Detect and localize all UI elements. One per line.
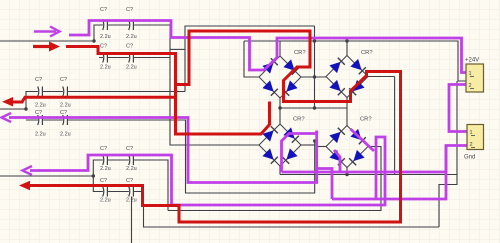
wire bridge CR1 top: [279, 41, 281, 56]
magenta branch: [317, 169, 332, 200]
capacitor C2: [129, 20, 134, 30]
svg-text:C?: C?: [126, 7, 133, 13]
capacitor C9: [103, 155, 108, 165]
capacitor C3: [103, 53, 108, 63]
svg-text:2.2u: 2.2u: [100, 34, 111, 40]
bridge rectifier CR4: [326, 126, 368, 168]
svg-text:2.2u: 2.2u: [126, 198, 137, 204]
junction node C: [92, 174, 95, 177]
svg-text:C?: C?: [35, 110, 42, 116]
magenta bridge CR4 stub: [334, 150, 340, 172]
wire bot rail2: [93, 176, 143, 192]
wire net2 up to mid rail: [26, 92, 185, 110]
magenta bridge CR3 loop: [282, 131, 317, 173]
red arrow out (bottom left): [19, 181, 30, 191]
svg-text:2.2u: 2.2u: [35, 103, 46, 109]
wire net1 to top cap rail: [94, 25, 259, 145]
svg-text:C?: C?: [100, 146, 107, 152]
red input wire top: [28, 31, 401, 222]
junction node A: [92, 39, 95, 42]
capacitor C11: [103, 187, 108, 197]
junction node J: [313, 106, 316, 109]
junction node H: [313, 139, 316, 142]
wire bottom tie: [280, 107, 347, 109]
capacitor C10: [129, 155, 134, 165]
wire bridge CR4 left: [317, 146, 326, 148]
red arrow in (top left): [33, 42, 60, 52]
svg-text:2.2u: 2.2u: [100, 65, 111, 71]
magenta gnd wire: [282, 146, 467, 173]
magenta input wire top: [69, 21, 466, 73]
magenta mid output wire: [9, 118, 317, 183]
svg-text:2.2u: 2.2u: [100, 198, 111, 204]
wire net2 left: [0, 108, 26, 110]
junction node D: [278, 106, 281, 109]
wire bottom tie2: [280, 174, 457, 176]
wire bottom rail long: [144, 192, 440, 228]
bridge rectifier CR2: [326, 56, 368, 98]
bridge rectifier CR3: [259, 124, 301, 166]
svg-text:C?: C?: [126, 178, 133, 184]
wire bridge CR1 right to node: [301, 76, 326, 78]
wire right vertical long: [394, 77, 396, 175]
svg-text:CR?: CR?: [293, 117, 305, 123]
svg-text:2.2u: 2.2u: [35, 132, 46, 138]
wire low rail: [168, 147, 381, 211]
capacitor C6: [63, 87, 68, 97]
capacitor C4: [129, 53, 134, 63]
magenta arrow in (top left): [34, 27, 60, 37]
magenta conn link: [449, 85, 467, 132]
svg-text:CR?: CR?: [360, 117, 372, 123]
svg-text:C?: C?: [100, 178, 107, 184]
wire net3 up: [93, 160, 168, 211]
wire mid U: [26, 120, 315, 193]
svg-text:2.2u: 2.2u: [60, 103, 71, 109]
wire node down: [314, 26, 316, 108]
red arrow out (mid left): [2, 97, 13, 107]
junction node I: [345, 173, 348, 176]
wire net3 left: [0, 175, 93, 177]
svg-text:2.2u: 2.2u: [126, 65, 137, 71]
red mid wire: [12, 97, 176, 102]
wire top right rail to +24V: [244, 41, 467, 81]
capacitor C7: [38, 115, 43, 125]
svg-text:C?: C?: [126, 44, 133, 50]
bridge rectifier CR1: [259, 56, 301, 98]
svg-text:C?: C?: [100, 7, 107, 13]
svg-text:Gnd: Gnd: [464, 155, 475, 161]
magenta arrow out (bottom left): [23, 166, 33, 175]
junction node F: [313, 75, 316, 78]
svg-text:+24V: +24V: [465, 58, 479, 64]
magenta bridge CR4 diag: [351, 129, 375, 151]
wire cap col down: [131, 197, 133, 243]
junction node E: [313, 39, 316, 42]
wire bridge CR4 bottom: [346, 168, 348, 175]
capacitor C8: [63, 115, 68, 125]
wire bridge CR3 right: [301, 144, 315, 146]
wire mid to top: [185, 26, 315, 92]
svg-text:2.2u: 2.2u: [100, 166, 111, 172]
capacitor C1: [103, 20, 108, 30]
svg-text:C?: C?: [60, 77, 67, 83]
wire net1 left: [0, 40, 94, 42]
capacitor C5: [38, 87, 43, 97]
wire top cap rail2: [99, 57, 170, 59]
wire bridge CR2 top: [346, 41, 348, 56]
wire bridge CR2 right: [368, 76, 395, 78]
svg-text:C?: C?: [60, 110, 67, 116]
magenta gnd low wire: [332, 146, 446, 200]
junction node G: [345, 39, 348, 42]
svg-text:CR?: CR?: [294, 50, 306, 56]
svg-text:C?: C?: [35, 77, 42, 83]
connector J1 +24V: [466, 64, 484, 92]
svg-text:2.2u: 2.2u: [126, 34, 137, 40]
svg-text:2.2u: 2.2u: [60, 132, 71, 138]
junction node B: [24, 107, 27, 110]
wire to bridge CR1 left: [244, 41, 259, 77]
wire bridge CR3 bottom: [279, 166, 281, 175]
connector J2 Gnd: [467, 125, 484, 150]
wire bridge CR2 bottom: [346, 98, 348, 126]
wire bridge CR1 bottom: [279, 98, 281, 124]
capacitor C12: [129, 187, 134, 197]
magenta bottom output wire: [30, 137, 385, 205]
svg-text:2.2u: 2.2u: [126, 166, 137, 172]
magenta arrow out (mid left): [2, 113, 12, 122]
svg-text:C?: C?: [126, 146, 133, 152]
svg-text:C?: C?: [100, 44, 107, 50]
red bridge CR3 spur: [176, 102, 270, 135]
wire top link: [170, 48, 185, 50]
wire gnd column: [439, 81, 457, 227]
svg-text:CR?: CR?: [361, 50, 373, 56]
